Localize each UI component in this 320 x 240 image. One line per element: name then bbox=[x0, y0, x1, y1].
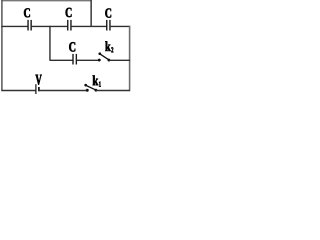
wire: capacitor row, left border to C1 left plate bbox=[1, 25, 28, 27]
switch k2 (open) bbox=[98, 52, 111, 61]
wire: node J riser from capacitor row down to middle branch bbox=[49, 26, 51, 61]
battery V plates bbox=[36, 84, 39, 94]
wire: battery branch, switch k1 to right border bbox=[96, 90, 130, 92]
wire: capacitor row, C1 to C2 bbox=[31, 25, 68, 27]
wire: battery branch, battery V to switch k1 bbox=[39, 90, 88, 92]
label subscript 2 of k2 bbox=[111, 47, 113, 52]
wire: left border from node A down to battery branch bbox=[1, 0, 3, 91]
wire: right border from capacitor row down to battery branch bbox=[129, 26, 131, 91]
wire: capacitor row, C3 to right border bbox=[110, 25, 130, 27]
label subscript 1 of k1 bbox=[99, 82, 101, 87]
label C of C4 bbox=[69, 42, 75, 51]
capacitor C1 plates bbox=[28, 20, 31, 31]
label C of C2 bbox=[66, 8, 72, 17]
label V of battery bbox=[36, 75, 42, 85]
wire: battery branch, left border to battery V bbox=[1, 90, 36, 92]
capacitor C4 plates bbox=[73, 54, 76, 65]
label k of k2 bbox=[105, 41, 110, 51]
switch k1 (open) bbox=[84, 84, 97, 92]
label C of C3 bbox=[105, 8, 111, 17]
wire: top bridge of node A (clipped at top edge, renders gray) bbox=[1, 0, 91, 2]
wire: middle branch, node J riser to C4 bbox=[50, 59, 73, 61]
wire: middle branch, C4 to switch k2 bbox=[76, 59, 99, 61]
capacitor C2 plates bbox=[68, 20, 71, 31]
wire: middle branch, switch k2 to right border bbox=[109, 59, 130, 61]
wire: node B riser joining top bridge to capacitor row bbox=[90, 0, 92, 27]
label C of C1 bbox=[24, 8, 30, 17]
label k of k1 bbox=[93, 75, 99, 85]
wire: capacitor row, C2 to C3 (passes node B riser) bbox=[71, 25, 107, 27]
capacitor C3 plates bbox=[107, 20, 110, 31]
